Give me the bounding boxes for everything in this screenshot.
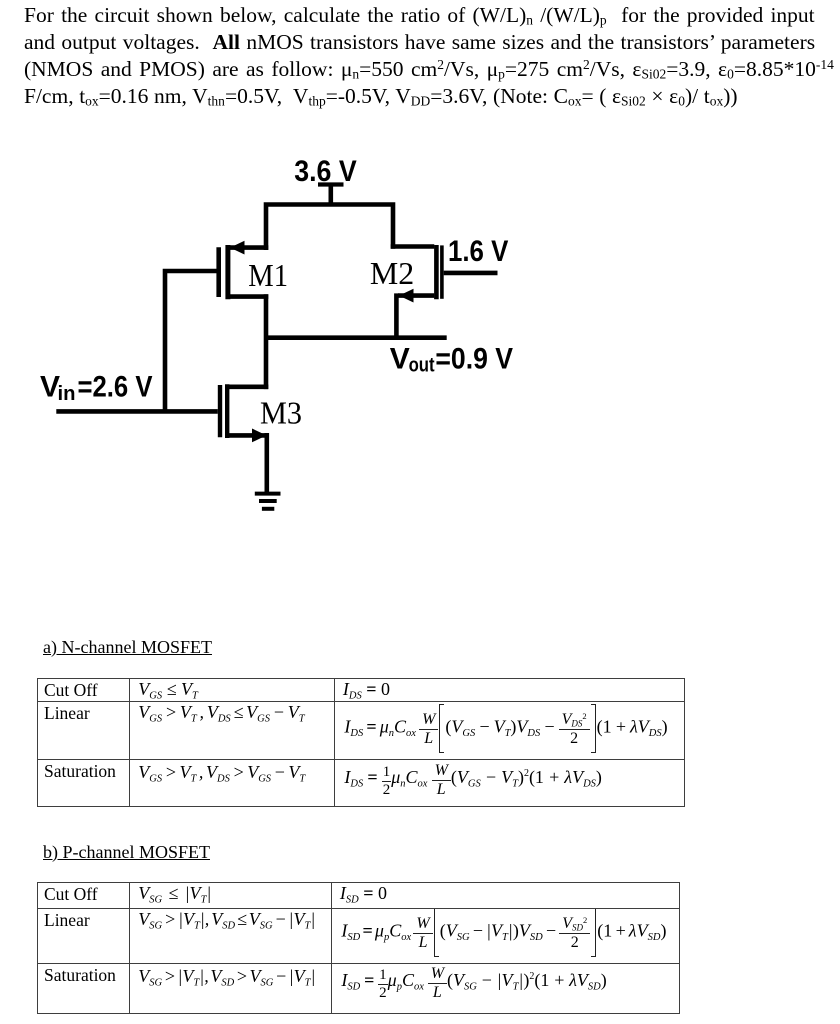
heading b) xyxy=(43,842,210,863)
svg-text:in: in xyxy=(58,383,76,405)
transistor M1 gate bar xyxy=(216,247,221,297)
svg-text:V: V xyxy=(390,343,410,376)
transistor M1 channel bar xyxy=(225,245,230,299)
M2 source arrow xyxy=(399,289,414,303)
svg-text:M3: M3 xyxy=(260,395,302,431)
wire: M1 bottom (drain) lead xyxy=(230,294,268,299)
label Vout=0.9 V xyxy=(390,343,513,377)
ground symbol xyxy=(255,492,281,496)
label Vin=2.6 V xyxy=(40,370,153,405)
wire: M2 source down to output rail xyxy=(394,293,399,340)
header paragraph line 2 xyxy=(24,30,815,55)
transistor M2 gate bar xyxy=(440,245,444,298)
svg-text:=0.9 V: =0.9 V xyxy=(435,343,513,376)
wire: top rail with drain drops to M1 and M2 xyxy=(266,205,393,251)
wire: M2 top (drain) lead xyxy=(391,244,435,249)
svg-text:out: out xyxy=(409,354,435,376)
transistor M2 channel bar xyxy=(434,245,439,299)
svg-text:=2.6 V: =2.6 V xyxy=(78,370,153,403)
table b: P-channel MOSFET xyxy=(37,882,680,1014)
wire: output rail xyxy=(266,335,447,340)
heading a) xyxy=(43,637,212,658)
wire: M2 bottom (source) lead xyxy=(398,293,434,298)
wire: M1 drain down to output node down to M3 drain xyxy=(264,294,269,389)
wire: Vin wire to gates xyxy=(56,409,218,414)
svg-text:M1: M1 xyxy=(248,257,288,293)
M1 source arrow xyxy=(230,241,245,255)
wire: M3 top (drain) lead xyxy=(229,384,268,389)
VDD supply tick xyxy=(318,182,344,186)
table a: N-channel MOSFET xyxy=(37,678,685,807)
wire: M3 source down to ground xyxy=(264,433,269,494)
circuit schematic xyxy=(0,140,560,540)
header paragraph line 4 xyxy=(24,84,738,109)
svg-text:1.6 V: 1.6 V xyxy=(448,235,508,268)
M3 source arrow xyxy=(252,429,267,443)
wire: M1 gate lead xyxy=(165,271,217,411)
svg-text:M2: M2 xyxy=(370,255,414,291)
header paragraph line 1 xyxy=(24,3,815,28)
wire: M3 bottom (source) lead xyxy=(229,433,267,438)
transistor M3 gate bar xyxy=(218,385,222,437)
wire: M1 top (source) lead xyxy=(230,245,268,250)
transistor M3 channel bar xyxy=(225,384,229,438)
header paragraph line 3 xyxy=(24,57,834,82)
wire: M2 gate lead xyxy=(444,271,498,276)
